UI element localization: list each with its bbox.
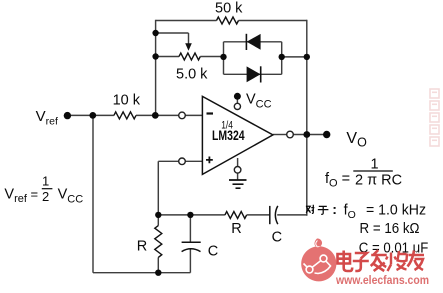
wire pot row right to diode box [200,56,223,58]
watermark hanzi ZI (child) [354,254,370,272]
pin circle output [287,131,294,138]
node dot RC row C junction [187,212,193,218]
node dot 10k output junction [152,112,159,119]
svg-text:fO: fO [344,203,356,222]
svg-text:2 π RC: 2 π RC [355,173,402,189]
node dot RC row left junction [155,212,161,218]
wire bottom rail [93,272,190,274]
wire non-inverting input left [158,160,179,162]
wire C vertical top lead [189,215,191,242]
svg-text:R: R [231,221,241,237]
wire C to right vertical [277,214,307,216]
watermark hanzi YOU (friend) [409,252,426,272]
wire diode box top rail [224,41,282,43]
node dot pot wiper tap [152,30,158,36]
wire ground stem upper [237,158,239,167]
svg-text:Vref: Vref [36,108,58,128]
resistor 10 k [114,112,136,119]
pin circle inverting input [179,112,186,119]
capacitor C horizontal plates [270,206,278,224]
svg-text:VCC: VCC [246,92,272,111]
node dot Vref junction [89,112,96,119]
wire Vref to 10k [67,114,114,116]
wire left vertical from top rail to 10k output node [155,20,157,116]
watermark faint vertical hanzi right edge [430,89,439,146]
wire diode output to right vertical [282,56,307,58]
svg-text:C: C [272,229,282,245]
wire VCC stem [236,98,238,103]
wire output circle to VO [293,134,326,136]
node VCC dot [234,93,241,100]
svg-text:fO =: fO = [325,171,350,190]
svg-text:Vref =: Vref = [4,187,38,206]
wire R vertical bottom lead [157,257,159,272]
wire RC row left [158,214,225,216]
svg-text:50 k: 50 k [215,0,243,16]
wire non-inverting vertical down [157,161,159,215]
svg-text:= 1.0 kHz: = 1.0 kHz [366,203,426,219]
watermark logo circle (elecfans) [301,238,336,281]
wire 10k to inverting input circle [136,114,179,116]
wire non-inverting input circle to op-amp [185,160,202,162]
node Vref terminal dot [64,112,71,119]
svg-text:VO: VO [346,130,367,150]
watermark hanzi FA (emit) [372,251,388,272]
hanzi YU [318,206,329,214]
pin circle VCC [234,103,240,109]
wire top rail right segment [239,20,307,22]
wire ground stem lower [237,173,239,180]
node dot diode left [220,54,226,60]
pin circle ground [234,167,241,174]
potentiometer 5.0 k element [179,53,200,60]
wire pot row left [156,56,179,58]
node dot output junction [303,131,310,138]
svg-text:5.0 k: 5.0 k [176,66,208,82]
diode D1 top (pointing left) [246,34,260,50]
node dot diode right [279,54,285,60]
svg-text:R = 16 kΩ: R = 16 kΩ [360,221,420,237]
resistor R vertical [155,226,162,258]
svg-text:1: 1 [371,157,379,173]
wire right vertical feedback line [306,20,308,216]
svg-text:R: R [137,238,147,254]
wire diode box bottom rail [224,73,282,75]
node VO terminal dot [323,131,330,138]
wire RC row between R and C [247,214,270,216]
wire left bottom vertical from Vref node [92,115,94,272]
op-amp minus sign [207,112,214,114]
svg-text:VCC: VCC [58,187,84,206]
wire diode box right vertical [281,42,283,75]
svg-text::: : [332,201,337,217]
pin circle non-inverting input [179,158,186,165]
wire inverting input circle to op-amp [185,114,202,116]
wire top rail left segment [156,20,217,22]
node dot pot left [152,53,158,59]
hanzi DUI [306,205,314,214]
diode D2 bottom (pointing right) [247,66,261,82]
node dot right vertical diodes [304,54,310,60]
svg-text:C: C [208,243,218,259]
op-amp U1 triangle [202,96,273,174]
resistor 50 k [217,17,239,24]
resistor R horizontal [225,212,247,219]
op-amp plus sign [206,157,213,164]
node dot bottom rail junction [155,270,161,276]
svg-text:2: 2 [42,189,49,204]
wire pot wiper vertical [188,33,190,45]
svg-text:www.elecfans.com: www.elecfans.com [335,273,429,287]
potentiometer wiper arrow [185,43,192,51]
wire op-amp output to circle [273,134,287,136]
ground symbol [229,180,247,188]
wire pot wiper horizontal [156,32,189,34]
wire C vertical bottom lead [189,249,191,273]
wire diode box left vertical [223,42,225,75]
svg-text:10 k: 10 k [113,93,141,109]
wire R vertical top lead [157,215,159,226]
watermark hanzi SHAO (burn) [387,252,408,272]
watermark hanzi DIAN (electric) [339,252,354,273]
svg-text:LM324: LM324 [212,128,245,143]
capacitor C vertical plates [182,242,201,251]
svg-text:1: 1 [42,174,49,189]
